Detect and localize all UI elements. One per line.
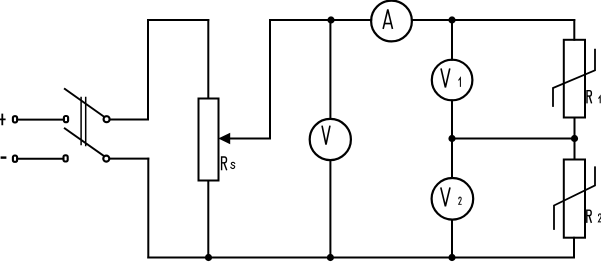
- wire rheostat top lead: [207, 20, 209, 99]
- terminal post switch bottom contact: [64, 155, 68, 161]
- terminal post switch top contact: [64, 116, 68, 122]
- wire V2 upper lead: [451, 139, 453, 179]
- wire switch top pole to left riser: [110, 119, 148, 121]
- wire switch bottom pole to left down riser: [110, 158, 149, 160]
- wire R2 top lead: [574, 139, 576, 160]
- switch S1 bottom blade: [65, 128, 104, 156]
- node junction dot top V branch: [327, 16, 334, 23]
- wire + terminal to switch contact: [18, 119, 62, 121]
- wire wiper riser up: [269, 20, 271, 139]
- node + (positive supply terminal label): [0, 115, 5, 125]
- node junction dot mid left: [448, 135, 455, 142]
- wire rheostat bottom lead: [207, 181, 209, 258]
- wire top rail segment 1: [148, 19, 208, 21]
- resistor Rs rheostat body: [199, 99, 219, 181]
- node junction dot bottom rheostat: [205, 254, 212, 261]
- resistor R2 body: [564, 160, 585, 238]
- wire R1 bottom lead: [574, 118, 576, 139]
- rheostat wiper arrow: [229, 138, 270, 140]
- resistor Rs value label: [222, 157, 235, 170]
- node junction dot bottom V: [327, 254, 334, 261]
- resistor R1 label: [587, 91, 600, 103]
- switch S1 top pole pivot: [104, 116, 110, 122]
- wire R1 top lead: [573, 20, 575, 40]
- voltmeter V2: [432, 178, 474, 220]
- wire R2 bottom lead: [573, 238, 575, 258]
- resistor R2 label: [587, 210, 601, 222]
- voltmeter V1: [432, 60, 473, 101]
- wire left riser up: [147, 20, 149, 120]
- node junction dot top V1 branch: [448, 16, 455, 23]
- wire V branch upper lead: [329, 20, 331, 119]
- wire - terminal to switch contact: [18, 158, 62, 160]
- terminal post left bottom: [13, 156, 17, 162]
- node - (negative supply terminal label): [2, 156, 5, 158]
- wire top rail segment 3: [412, 19, 574, 21]
- wire V1 upper lead: [451, 20, 453, 60]
- wire top rail segment 2: [270, 19, 371, 21]
- switch S1 top blade: [65, 89, 104, 117]
- switch S1 link bar: [81, 98, 86, 146]
- terminal post left top: [13, 116, 17, 122]
- switch S1 bottom pole pivot: [103, 156, 109, 162]
- resistor R1 body: [564, 40, 585, 118]
- node junction dot mid right: [571, 135, 578, 142]
- wire V1 lower lead: [451, 100, 453, 138]
- node junction dot bottom V2: [448, 254, 455, 261]
- wire bottom rail: [148, 257, 574, 259]
- wire V2 lower lead: [451, 220, 453, 258]
- wire mid rail: [452, 138, 575, 140]
- wire V branch lower lead: [329, 160, 331, 257]
- wire left riser down: [147, 159, 149, 258]
- ammeter A: [371, 1, 412, 42]
- resistor R1 thermistor diagonal: [553, 50, 595, 106]
- resistor R2 thermistor diagonal: [554, 167, 595, 229]
- voltmeter V: [310, 119, 351, 160]
